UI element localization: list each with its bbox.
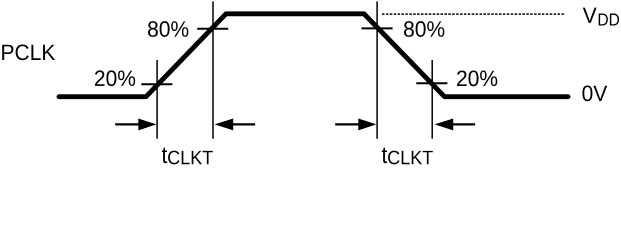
signal label PCLK xyxy=(2,44,55,60)
arrow A1 (points right at L1) xyxy=(115,118,156,130)
value label tCLKT t (falling) xyxy=(382,148,387,164)
wire vertical line L3 (80% falling) xyxy=(376,1,378,138)
value label tCLKT sub (falling) xyxy=(388,151,433,165)
node 80% tick (rising edge) xyxy=(197,28,228,30)
wire vertical line L1 (20% rising) xyxy=(156,60,158,139)
net label 0V xyxy=(582,85,607,101)
value label tCLKT t (rising) xyxy=(162,148,167,164)
arrow A4 (points left at L4) xyxy=(435,118,476,130)
value label 20% (rising) xyxy=(95,70,135,86)
value label tCLKT sub (rising) xyxy=(168,151,213,165)
arrow A2 (points left at L2) xyxy=(215,118,256,130)
node 20% tick (falling edge) xyxy=(416,82,447,84)
net label VDD sub xyxy=(599,14,619,26)
wire PCLK waveform xyxy=(59,14,568,97)
value label 80% (rising) xyxy=(148,21,188,37)
wire vertical line L4 (20% falling) xyxy=(431,60,433,139)
value label 20% (falling) xyxy=(457,70,497,86)
net label VDD V xyxy=(583,8,597,23)
arrow A3 (points right at L3) xyxy=(335,118,376,130)
node 20% tick (rising edge) xyxy=(141,83,172,85)
node 80% tick (falling edge) xyxy=(362,27,393,29)
value label 80% (falling) xyxy=(404,21,444,37)
node VDD dotted reference line xyxy=(382,13,565,15)
wire vertical line L2 (80% rising) xyxy=(212,1,214,138)
